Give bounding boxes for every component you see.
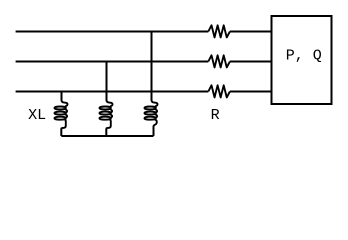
- svg-text:R: R: [211, 107, 220, 124]
- resistor R3: [208, 85, 230, 97]
- inductor XL2: [100, 100, 113, 129]
- svg-text:XL: XL: [28, 107, 46, 124]
- wire bottom bus joining inductors: [61, 135, 153, 137]
- wire vertical tap phase C to inductor 1: [61, 92, 63, 101]
- wire inductor 3 bottom lead: [153, 126, 155, 136]
- resistor R2: [208, 55, 230, 67]
- wire phase B left segment: [16, 61, 209, 63]
- wire phase B right segment to load box: [230, 61, 272, 63]
- wire vertical tap phase B to inductor 2: [106, 62, 108, 101]
- wire vertical tap phase A to inductor 3: [151, 32, 153, 101]
- wire phase C right segment to load box: [230, 91, 272, 93]
- inductor XL3: [145, 100, 158, 127]
- wire inductor 1 bottom lead: [60, 129, 62, 136]
- wire phase A left segment: [16, 31, 209, 33]
- wire inductor 2 bottom lead: [105, 129, 107, 136]
- inductor XL1: [55, 100, 68, 129]
- wire phase C left segment: [16, 91, 209, 93]
- resistor R1: [208, 25, 230, 37]
- load box U1: [272, 16, 332, 104]
- wire phase A right segment to load box: [230, 31, 272, 33]
- svg-text:P, Q: P, Q: [286, 48, 322, 65]
